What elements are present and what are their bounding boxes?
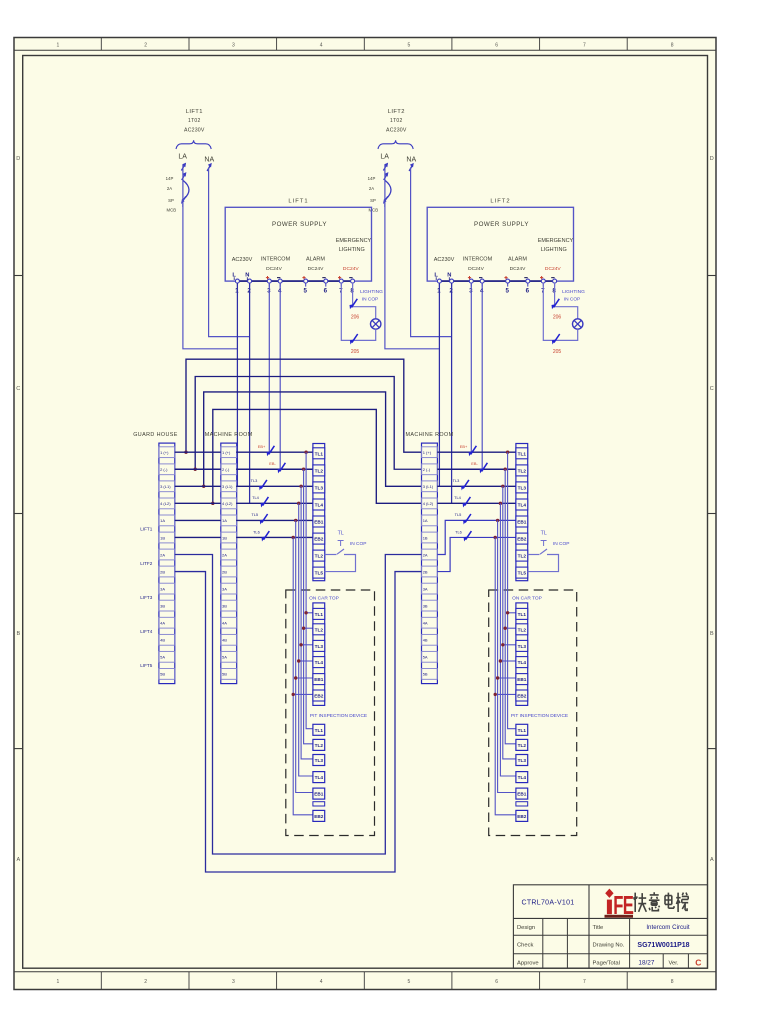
svg-text:DC24V: DC24V (468, 266, 485, 272)
svg-text:5B: 5B (160, 672, 165, 677)
wire machine-room-1 1B to TL column (236, 536, 313, 538)
svg-text:3 (L1): 3 (L1) (423, 484, 434, 489)
svg-text:LA: LA (380, 154, 389, 161)
svg-text:C: C (710, 386, 714, 392)
wire terminal3 to row + (lift 2) (470, 283, 472, 452)
wire NA to terminal2 (lift 1) (209, 168, 250, 337)
wire guard-house 2A loop to machine-room-2 (175, 555, 422, 855)
svg-text:5A: 5A (160, 655, 165, 660)
svg-text:6: 6 (324, 287, 328, 294)
svg-text:6: 6 (495, 979, 498, 985)
svg-text:IN COP: IN COP (553, 541, 570, 547)
svg-text:D: D (710, 156, 714, 162)
dashed enclosure car top / pit (lift1) (286, 590, 375, 836)
svg-text:C: C (16, 386, 20, 392)
svg-text:TL3: TL3 (315, 485, 324, 490)
wire feeder TL4 lift2 (500, 503, 516, 776)
svg-text:EMERGENCY: EMERGENCY (538, 238, 574, 244)
svg-text:5: 5 (505, 287, 509, 294)
svg-text:TL5: TL5 (518, 571, 527, 576)
svg-text:14P: 14P (368, 176, 376, 181)
svg-text:EB2: EB2 (314, 537, 324, 542)
wire feeder TL4 lift1 (299, 503, 313, 776)
svg-text:LIFT4: LIFT4 (140, 629, 152, 634)
wire feeder EB2 lift2 (495, 537, 516, 814)
wire NA arrow (lift 2) (409, 163, 414, 171)
svg-text:TL: TL (541, 530, 547, 536)
svg-text:TL4: TL4 (518, 502, 527, 507)
svg-text:MACHINE ROOM: MACHINE ROOM (205, 432, 253, 438)
svg-text:TL2: TL2 (518, 554, 527, 559)
svg-text:TL2: TL2 (315, 627, 324, 632)
svg-text:IN COP: IN COP (362, 296, 379, 302)
wire machine-room-2 3 (L1) to TL column (437, 485, 516, 487)
svg-text:DC24V: DC24V (510, 266, 527, 272)
wire feeder TL2 lift2 (505, 469, 516, 744)
svg-text:4 (L2): 4 (L2) (222, 501, 233, 506)
svg-text:1T02: 1T02 (188, 118, 201, 124)
wire guard-house 2B loop to machine-room-2 (175, 572, 422, 872)
svg-text:2 (-): 2 (-) (222, 467, 230, 472)
wire machine-room-2 1 (+) to TL column (437, 451, 516, 453)
svg-text:2B: 2B (160, 569, 165, 574)
wire lamp to terminal7 (lift 2) (543, 283, 577, 340)
wire machine-room-1 2 (-) to TL column (236, 468, 313, 470)
wire LA to terminal1 (lift 2) (385, 165, 440, 349)
svg-text:3B: 3B (423, 603, 428, 608)
svg-text:TL1: TL1 (315, 728, 324, 733)
svg-text:TL2: TL2 (518, 468, 527, 473)
wire feeder TL3 lift2 (503, 486, 516, 759)
svg-text:14P: 14P (166, 176, 174, 181)
wire machine-room-2 2 (-) to TL column (437, 468, 516, 470)
wire bus row4 guard-house to machine-room-2 (213, 409, 422, 503)
svg-text:NA: NA (406, 157, 416, 164)
svg-text:LIFT2: LIFT2 (388, 109, 405, 115)
svg-text:4B: 4B (160, 638, 165, 643)
wire guard-house row 1 (+) to machine-room-1 (175, 451, 221, 453)
svg-text:AC230V: AC230V (434, 257, 455, 263)
svg-text:INTERCOM: INTERCOM (261, 256, 291, 262)
svg-text:1 (+): 1 (+) (160, 450, 169, 455)
terminal strip TL column lift2 (516, 444, 528, 581)
terminal block MACHINE ROOM 2 (422, 443, 438, 683)
breaker MCB Q2 (SP 2A) (383, 163, 391, 207)
svg-text:3 (L1): 3 (L1) (222, 484, 233, 489)
svg-text:4 (L2): 4 (L2) (160, 501, 171, 506)
svg-text:TL5: TL5 (251, 512, 258, 517)
svg-text:1 (+): 1 (+) (423, 450, 432, 455)
wire feeder EB1 lift1 (296, 520, 313, 792)
svg-text:EB2: EB2 (517, 814, 527, 819)
svg-text:DC24V: DC24V (308, 266, 325, 272)
svg-text:TL6: TL6 (253, 529, 260, 534)
svg-text:LIGHTING: LIGHTING (541, 247, 567, 253)
wire feeder EB1 lift2 (498, 520, 516, 792)
wire terminal4 to row - (lift 2) (481, 283, 483, 469)
wire guard-house row 1A to machine-room-1 (175, 519, 221, 521)
svg-text:Intercom Circuit: Intercom Circuit (646, 924, 690, 931)
svg-text:EB2: EB2 (314, 814, 324, 819)
svg-text:6: 6 (526, 287, 530, 294)
wire guard-house row 3 (L1) to machine-room-1 (175, 485, 221, 487)
svg-text:2A: 2A (369, 186, 374, 191)
svg-text:5B: 5B (423, 672, 428, 677)
svg-text:EB1: EB1 (314, 520, 324, 525)
svg-text:CTRL70A-V101: CTRL70A-V101 (521, 899, 574, 906)
svg-text:D: D (16, 156, 20, 162)
wire lamp to terminal7 (lift 1) (341, 283, 375, 340)
svg-text:LIFT1: LIFT1 (288, 199, 308, 205)
svg-text:3A: 3A (160, 586, 165, 591)
brace LIFT1 (176, 140, 211, 149)
svg-text:POWER SUPPLY: POWER SUPPLY (474, 221, 529, 228)
wire machine-room-1 3 (L1) to TL column (236, 485, 313, 487)
svg-text:TL5: TL5 (315, 571, 324, 576)
svg-text:2A: 2A (167, 186, 172, 191)
svg-text:EMERGENCY: EMERGENCY (336, 238, 372, 244)
svg-text:206: 206 (553, 314, 562, 320)
terminal block GUARD HOUSE (159, 443, 175, 683)
svg-text:18/27: 18/27 (638, 959, 654, 966)
svg-text:1A: 1A (160, 518, 165, 523)
svg-text:TL4: TL4 (518, 775, 527, 780)
svg-text:EB2: EB2 (314, 694, 324, 699)
svg-text:IN COP: IN COP (350, 541, 367, 547)
svg-text:TL5: TL5 (455, 512, 462, 517)
svg-text:3B: 3B (222, 603, 227, 608)
brace LIFT2 (378, 140, 413, 149)
wire bus row3 guard-house to machine-room-2 (204, 392, 422, 486)
wire terminal4 to row - (lift 1) (279, 283, 281, 469)
svg-text:2A: 2A (423, 552, 428, 557)
svg-text:8: 8 (671, 43, 674, 49)
title block (decorative) (513, 885, 707, 968)
svg-text:EB1: EB1 (517, 677, 527, 682)
svg-text:TL: TL (338, 530, 344, 536)
svg-text:5A: 5A (222, 655, 227, 660)
wire bus row1 guard-house to machine-room-2 (186, 359, 422, 452)
wire terminal3 to row + (lift 1) (268, 283, 270, 452)
svg-text:TL2: TL2 (315, 468, 324, 473)
terminals 1-8 of U1 (237, 280, 352, 282)
svg-text:4B: 4B (423, 638, 428, 643)
svg-text:TL3: TL3 (518, 485, 527, 490)
wire terminal8 to lamp (lift 1) (353, 283, 376, 319)
svg-text:Ver.: Ver. (669, 960, 679, 966)
svg-text:5: 5 (408, 979, 411, 985)
wire machine-room-1 1A to TL column (236, 519, 313, 521)
svg-text:LITF2: LITF2 (140, 561, 152, 566)
wire feeder TL1 lift1 (306, 452, 313, 729)
svg-text:205: 205 (553, 349, 562, 355)
svg-text:SG71W0011P18: SG71W0011P18 (637, 942, 689, 949)
wire machine-room-1 4 (L2) to TL column (236, 502, 313, 504)
svg-text:Design: Design (517, 925, 535, 931)
svg-text:1 (+): 1 (+) (222, 450, 231, 455)
svg-text:4A: 4A (222, 621, 227, 626)
svg-text:206: 206 (351, 314, 360, 320)
svg-text:5: 5 (303, 287, 307, 294)
wire terminal1 to row L1 (lift 2) (438, 283, 440, 486)
svg-text:Drawing No.: Drawing No. (593, 943, 625, 949)
lamp E1 (lighting in COP) (371, 319, 381, 329)
svg-text:TL1: TL1 (315, 451, 324, 456)
svg-text:7: 7 (583, 979, 586, 985)
terminals 1-8 of U2 (439, 280, 554, 282)
wire machine-room-1 1 (+) to TL column (236, 451, 313, 453)
svg-text:4A: 4A (160, 621, 165, 626)
svg-text:ALARM: ALARM (306, 257, 325, 263)
svg-text:3A: 3A (222, 586, 227, 591)
svg-text:2 (-): 2 (-) (423, 467, 431, 472)
svg-text:EB2: EB2 (517, 537, 527, 542)
svg-text:3: 3 (232, 43, 235, 49)
svg-text:Title: Title (593, 925, 604, 931)
svg-text:TL4: TL4 (315, 775, 324, 780)
svg-text:PIT INSPECTION DEVICE: PIT INSPECTION DEVICE (310, 713, 367, 719)
svg-text:TL1: TL1 (518, 612, 527, 617)
svg-text:AC230V: AC230V (232, 257, 253, 263)
terminal block PIT lift2 (516, 724, 528, 821)
svg-text:TL6: TL6 (455, 529, 462, 534)
svg-text:3 (L1): 3 (L1) (160, 484, 171, 489)
svg-text:TL4: TL4 (252, 495, 260, 500)
svg-text:B: B (16, 631, 20, 637)
svg-text:MCB: MCB (369, 207, 379, 212)
terminal block MACHINE ROOM 1 (221, 443, 237, 683)
wire NA to terminal2 (lift 2) (411, 168, 452, 337)
svg-text:LIGHTING: LIGHTING (562, 289, 585, 295)
svg-text:TL4: TL4 (518, 660, 527, 665)
svg-text:C: C (695, 958, 701, 968)
svg-text:1T02: 1T02 (390, 118, 403, 124)
svg-text:Check: Check (517, 943, 534, 949)
wire machine-room-2 4 (L2) to TL column (437, 502, 516, 504)
svg-text:TL1: TL1 (315, 612, 324, 617)
svg-text:ON CAR TOP: ON CAR TOP (512, 596, 542, 602)
svg-text:LIFT5: LIFT5 (140, 663, 152, 668)
wire guard-house row 2 (-) to machine-room-1 (175, 468, 221, 470)
svg-text:EB+: EB+ (258, 444, 266, 449)
svg-text:5: 5 (408, 43, 411, 49)
svg-text:4: 4 (320, 43, 323, 49)
svg-text:A: A (16, 857, 20, 863)
wire LA to terminal1 (lift 1) (183, 165, 238, 349)
svg-text:1B: 1B (423, 535, 428, 540)
svg-text:AC230V: AC230V (184, 127, 205, 133)
svg-text:1B: 1B (160, 535, 165, 540)
svg-text:LIGHTING: LIGHTING (339, 247, 365, 253)
svg-text:TL3: TL3 (453, 478, 460, 483)
svg-text:TL4: TL4 (315, 502, 324, 507)
svg-text:205: 205 (351, 349, 360, 355)
svg-text:TL1: TL1 (518, 728, 527, 733)
svg-text:1: 1 (57, 979, 60, 985)
svg-text:EB1: EB1 (314, 677, 324, 682)
wire feeder TL2 lift1 (304, 469, 313, 744)
svg-text:5B: 5B (222, 672, 227, 677)
wire terminal8 to lamp (lift 2) (555, 283, 578, 319)
terminal strip TL column lift1 (313, 444, 325, 581)
svg-text:LIGHTING: LIGHTING (360, 289, 383, 295)
svg-text:EB1: EB1 (517, 520, 527, 525)
svg-text:LIFT3: LIFT3 (140, 595, 152, 600)
svg-text:LIFT1: LIFT1 (186, 109, 203, 115)
wire feeder TL1 lift2 (508, 452, 516, 729)
wire NA arrow (lift 1) (207, 163, 212, 171)
svg-text:LIFT1: LIFT1 (140, 527, 152, 532)
svg-text:GUARD HOUSE: GUARD HOUSE (133, 432, 178, 438)
svg-text:NA: NA (204, 157, 214, 164)
svg-text:AC230V: AC230V (386, 127, 407, 133)
svg-text:TL4: TL4 (454, 495, 462, 500)
svg-text:TL3: TL3 (518, 758, 527, 763)
svg-text:3: 3 (232, 979, 235, 985)
switch S2 TL in COP (528, 554, 540, 556)
switch S1 TL in COP (325, 554, 337, 556)
svg-text:IN COP: IN COP (564, 296, 581, 302)
wire terminal2 to row L2 (lift 1) (249, 283, 251, 503)
svg-text:EB-: EB- (471, 461, 478, 466)
svg-text:TL3: TL3 (315, 758, 324, 763)
svg-text:SP: SP (370, 198, 376, 203)
svg-text:7: 7 (583, 43, 586, 49)
svg-text:2B: 2B (222, 569, 227, 574)
svg-text:1A: 1A (222, 518, 227, 523)
wire machine-room-2 2B to EB2 (437, 537, 516, 571)
svg-text:MCB: MCB (167, 207, 177, 212)
svg-text:2 (-): 2 (-) (160, 467, 168, 472)
svg-text:TL3: TL3 (315, 644, 324, 649)
svg-text:TL4: TL4 (315, 660, 324, 665)
svg-text:4 (L2): 4 (L2) (423, 501, 434, 506)
svg-text:PIT INSPECTION DEVICE: PIT INSPECTION DEVICE (511, 713, 568, 719)
svg-text:EB-: EB- (269, 461, 276, 466)
svg-text:TL2: TL2 (315, 743, 324, 748)
svg-text:EB+: EB+ (460, 444, 468, 449)
svg-text:LA: LA (178, 154, 187, 161)
breaker MCB Q1 (SP 2A) (181, 163, 189, 207)
svg-text:DC24V: DC24V (266, 266, 283, 272)
wire terminal2 to row L2 (lift 2) (451, 283, 453, 503)
svg-text:2A: 2A (160, 552, 165, 557)
svg-text:ALARM: ALARM (508, 257, 527, 263)
svg-text:1B: 1B (222, 535, 227, 540)
svg-text:EB1: EB1 (314, 792, 324, 797)
svg-text:EB2: EB2 (517, 694, 527, 699)
svg-text:DC24V: DC24V (343, 266, 360, 272)
svg-text:ON CAR TOP: ON CAR TOP (309, 596, 339, 602)
svg-text:A: A (710, 857, 714, 863)
svg-text:2: 2 (144, 979, 147, 985)
svg-text:4A: 4A (423, 621, 428, 626)
svg-text:POWER SUPPLY: POWER SUPPLY (272, 221, 327, 228)
svg-text:B: B (710, 631, 714, 637)
svg-text:TL3: TL3 (251, 478, 258, 483)
lamp E2 (lighting in COP) (573, 319, 583, 329)
svg-text:3A: 3A (423, 586, 428, 591)
svg-text:1A: 1A (423, 518, 428, 523)
svg-text:5A: 5A (423, 655, 428, 660)
svg-text:2B: 2B (423, 569, 428, 574)
svg-text:INTERCOM: INTERCOM (463, 256, 493, 262)
svg-text:TL2: TL2 (518, 627, 527, 632)
svg-text:4: 4 (320, 979, 323, 985)
svg-text:Page/Total: Page/Total (593, 960, 620, 966)
wire terminal1 to row L1 (lift 1) (236, 283, 238, 486)
svg-text:SP: SP (168, 198, 174, 203)
wire guard-house row 4 (L2) to machine-room-1 (175, 502, 221, 504)
svg-text:2: 2 (144, 43, 147, 49)
svg-text:4B: 4B (222, 638, 227, 643)
terminal block ON CAR TOP lift1 (313, 603, 325, 706)
svg-text:8: 8 (671, 979, 674, 985)
wire feeder EB2 lift1 (293, 537, 313, 814)
svg-text:6: 6 (495, 43, 498, 49)
svg-text:2A: 2A (222, 552, 227, 557)
wire bus row2 guard-house to machine-room-2 (195, 377, 421, 470)
terminal block ON CAR TOP lift2 (516, 603, 528, 706)
dashed enclosure car top / pit (lift2) (489, 590, 577, 836)
svg-text:TL3: TL3 (518, 644, 527, 649)
svg-text:Approve: Approve (517, 960, 539, 966)
svg-text:TL2: TL2 (518, 743, 527, 748)
svg-text:TL1: TL1 (518, 451, 527, 456)
wire guard-house row 1B to machine-room-1 (175, 536, 221, 538)
svg-text:TL2: TL2 (315, 554, 324, 559)
terminal block PIT lift1 (313, 724, 325, 821)
svg-text:LIFT2: LIFT2 (490, 199, 510, 205)
wire feeder TL3 lift1 (301, 486, 313, 759)
wire machine-room-2 2A to EB1 (437, 520, 516, 554)
svg-text:3B: 3B (160, 603, 165, 608)
svg-text:EB1: EB1 (517, 792, 527, 797)
svg-text:MACHINE ROOM: MACHINE ROOM (406, 432, 454, 438)
svg-text:DC24V: DC24V (545, 266, 562, 272)
svg-text:1: 1 (57, 43, 60, 49)
logo iFE (decorative) (605, 889, 613, 898)
